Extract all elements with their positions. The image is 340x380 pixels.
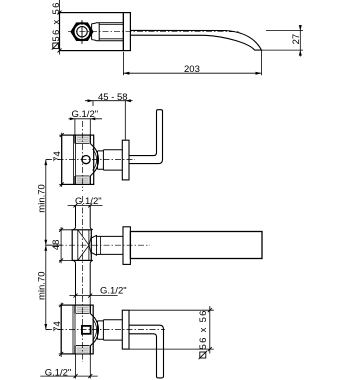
svg-text:G.1/2": G.1/2": [75, 196, 102, 207]
svg-text:74: 74: [52, 321, 63, 332]
svg-text:48: 48: [51, 240, 62, 251]
svg-text:27: 27: [291, 34, 302, 45]
svg-text:74: 74: [52, 151, 63, 162]
svg-text:min.70: min.70: [37, 184, 48, 213]
svg-text:G.1/2": G.1/2": [45, 368, 72, 379]
svg-text:G.1/2": G.1/2": [100, 285, 127, 296]
svg-text:56 x 56: 56 x 56: [198, 309, 209, 349]
svg-text:203: 203: [184, 64, 200, 75]
svg-text:45 - 58: 45 - 58: [98, 92, 128, 103]
svg-text:56 x 56: 56 x 56: [51, 1, 62, 41]
svg-text:G.1/2": G.1/2": [72, 109, 99, 120]
svg-text:min.70: min.70: [37, 271, 48, 300]
